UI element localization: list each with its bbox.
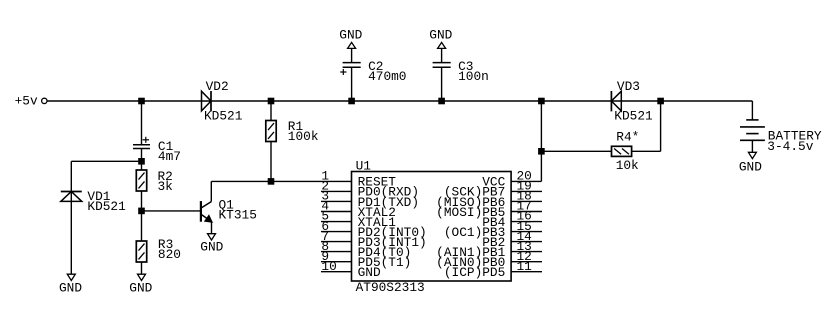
ground (Q1) — [200, 234, 223, 255]
junction R2/R3/Q1-base — [139, 208, 145, 214]
pin 9 number — [321, 249, 329, 264]
wire R3 to ground — [141, 262, 143, 274]
label C3 — [458, 59, 473, 74]
svg-text:KD521: KD521 — [87, 199, 126, 214]
ground (C3, up) — [429, 28, 452, 49]
pin 15 label (OC1)PB3 — [444, 225, 505, 240]
pin 3 number — [321, 189, 329, 204]
svg-text:VD2: VD2 — [206, 79, 229, 94]
pin 7 number — [321, 229, 329, 244]
label C2 — [368, 59, 383, 74]
wire U1 pin 19 stub — [511, 190, 542, 192]
pin 4 label XTAL2 — [358, 205, 396, 220]
value 100k — [288, 129, 319, 144]
svg-text:AT90S2313: AT90S2313 — [356, 280, 425, 295]
capacitor C3 — [433, 63, 451, 68]
wire U1 pin 9 stub — [321, 261, 352, 263]
pin 20 label VCC — [482, 175, 505, 190]
pin 5 number — [321, 209, 329, 224]
pin 10 number — [321, 259, 336, 274]
pin 20 number — [517, 169, 532, 184]
resistor R1 — [266, 121, 276, 142]
svg-text:470m0: 470m0 — [368, 69, 406, 84]
svg-text:GND: GND — [339, 28, 362, 43]
wire R1 to reset line — [270, 142, 272, 182]
wire Q1 collector up to reset line — [210, 181, 212, 201]
svg-text:GND: GND — [429, 28, 452, 43]
op-amp U1 body (IC box) — [352, 172, 512, 282]
wire C3 to rail — [441, 67, 443, 101]
pin 17 label (MOSI)PB5 — [436, 205, 505, 220]
svg-text:GND: GND — [59, 281, 82, 296]
value KD521 (VD2) — [204, 109, 243, 124]
value KD521 (VD3) — [614, 109, 653, 124]
pin 2 label PD0(RXD) — [358, 185, 419, 200]
pin 1 label RESET — [358, 175, 397, 190]
value 820 — [158, 247, 181, 262]
svg-text:820: 820 — [158, 247, 181, 262]
wire U1 pin 6 stub — [321, 231, 352, 233]
label C1 — [158, 139, 174, 154]
pin 15 number — [517, 219, 532, 234]
wire R4 to rail (right, up) — [632, 101, 661, 151]
svg-text:100k: 100k — [288, 129, 319, 144]
pin 17 number — [517, 199, 532, 214]
value 100n — [458, 69, 489, 84]
pin 12 number — [517, 249, 532, 264]
wire +5v rail: VD2 cathode to VD3 cathode — [211, 100, 611, 102]
value 4m7 — [158, 149, 181, 164]
wire U1 pin 17 stub — [511, 210, 542, 212]
label R4* — [616, 130, 639, 145]
capacitor C2 (polarized, + bottom-left) — [340, 63, 361, 75]
wire C2 to rail — [351, 67, 353, 101]
wire node to VD1 (left then down) — [71, 161, 141, 201]
svg-text:KD521: KD521 — [204, 109, 243, 124]
pin 11 number — [517, 259, 533, 274]
value 3k — [158, 179, 174, 194]
wire U1 pin 16 stub — [511, 221, 542, 223]
value KD521 (VD1) — [87, 199, 126, 214]
pin 3 label PD1(TXD) — [358, 195, 419, 210]
junction rail/C2 — [349, 98, 355, 104]
pin 14 label PB2 — [482, 235, 505, 250]
pin 18 number — [517, 189, 532, 204]
wire Q1 emitter to ground — [211, 222, 213, 234]
ground (battery) — [739, 152, 762, 174]
wire U1 pin 20 to +5v rail — [511, 101, 541, 181]
pin 11 label (ICP)PD5 — [444, 265, 505, 280]
wire U1 pin 10 stub — [321, 271, 352, 273]
svg-text:(ICP)PD5: (ICP)PD5 — [444, 265, 505, 280]
resistor R3 — [136, 241, 146, 262]
junction rail/VCC riser — [539, 98, 545, 104]
wire node to R2 — [141, 161, 143, 170]
pin 10 label GND — [358, 265, 381, 280]
pin 6 number — [321, 219, 329, 234]
diode VD3 — [611, 91, 621, 111]
pin 6 label PD2(INT0) — [358, 225, 427, 240]
wire +5v rail: VD3 to battery corner — [611, 100, 752, 102]
pin 12 label (AIN0)PB0 — [436, 255, 505, 270]
ground (C2, up) — [339, 28, 362, 49]
pin 19 number — [517, 179, 532, 194]
wire gnd to C2 — [351, 48, 353, 62]
wire +5v rail: terminal to VD2 — [47, 100, 211, 102]
svg-text:KT315: KT315 — [219, 207, 257, 222]
wire VD1 anode to ground — [70, 201, 72, 273]
junction VCC riser/R4 — [539, 149, 545, 155]
pin 8 number — [321, 239, 329, 254]
pin 13 label (AIN1)PB1 — [436, 245, 505, 260]
node +5v supply label — [15, 93, 38, 108]
svg-text:4m7: 4m7 — [158, 149, 181, 164]
pin 14 number — [517, 229, 533, 244]
svg-text:10: 10 — [321, 259, 336, 274]
ground (R3) — [129, 274, 152, 295]
wire base node to Q1 base — [142, 210, 201, 212]
wire U1 pin 3 stub — [321, 200, 352, 202]
pin 5 label XTAL1 — [358, 215, 397, 230]
ground (VD1) — [59, 274, 82, 295]
svg-text:100n: 100n — [458, 69, 489, 84]
pin 1 number — [321, 169, 329, 184]
svg-text:10k: 10k — [616, 158, 639, 173]
label BATTERY — [768, 129, 822, 144]
wire U1 pin 11 stub — [511, 271, 542, 273]
wire reset line (Q1 collector to U1 pin 1) — [211, 180, 351, 182]
pin 19 label (SCK)PB7 — [444, 185, 505, 200]
label VD3 — [617, 79, 640, 94]
wire U1 pin 4 stub — [321, 210, 352, 212]
junction rail/R1 — [268, 98, 274, 104]
svg-text:GND: GND — [358, 265, 381, 280]
wire U1 pin 7 stub — [321, 241, 352, 243]
value 10k — [616, 158, 639, 173]
transistor Q1 — [201, 201, 212, 222]
pin 18 label (MISO)PB6 — [436, 195, 505, 210]
svg-text:GND: GND — [200, 240, 223, 255]
diode VD2 — [202, 91, 212, 111]
wire U1 pin 2 stub — [321, 190, 352, 192]
svg-text:KD521: KD521 — [614, 109, 653, 124]
wire U1 pin 12 stub — [511, 261, 542, 263]
wire gnd to C3 — [441, 48, 443, 62]
value AT90S2313 — [356, 280, 425, 295]
label VD1 — [87, 189, 110, 204]
wire battery to ground — [751, 140, 753, 152]
label R3 — [158, 237, 173, 252]
junction rail/C3 — [439, 98, 445, 104]
wire rail to C1 top plate — [141, 101, 143, 145]
pin 16 label PB4 — [482, 215, 505, 230]
wire rail to R1 — [270, 101, 272, 121]
resistor R4 — [612, 146, 632, 156]
wire U1 pin 15 stub — [511, 231, 542, 233]
pin 2 number — [321, 179, 329, 194]
svg-text:11: 11 — [517, 259, 533, 274]
value 470m0 — [368, 69, 406, 84]
pin 4 number — [321, 199, 329, 214]
wire rail to battery — [751, 101, 753, 120]
label R1 — [288, 119, 304, 134]
wire U1 pin 5 stub — [321, 221, 352, 223]
svg-text:GND: GND — [129, 281, 152, 296]
svg-text:U1: U1 — [356, 158, 372, 173]
capacitor C1 (polarized, + top-right) — [133, 137, 150, 149]
svg-text:GND: GND — [739, 160, 762, 175]
wire U1 pin 14 stub — [511, 241, 542, 243]
wire U1 pin 8 stub — [321, 251, 352, 253]
value 3-4.5v — [767, 139, 813, 154]
label VD2 — [206, 79, 229, 94]
wire R2 to R3 (through base node) — [141, 191, 143, 241]
label Q1 — [219, 197, 235, 212]
svg-text:VD3: VD3 — [617, 79, 640, 94]
pin 16 number — [517, 209, 532, 224]
svg-text:+5v: +5v — [15, 93, 38, 108]
pin 7 label PD3(INT1) — [358, 235, 427, 250]
value KT315 — [219, 207, 257, 222]
terminal +5v (open circle) — [42, 98, 47, 103]
resistor R2 — [136, 170, 146, 191]
pin 13 number — [517, 239, 532, 254]
label R2 — [158, 169, 173, 184]
wire VCC riser to R4 — [541, 150, 611, 152]
svg-text:R4*: R4* — [616, 130, 639, 145]
battery BAT1 — [740, 120, 765, 140]
svg-text:3-4.5v: 3-4.5v — [767, 139, 813, 154]
pin 9 label PD5(T1) — [358, 255, 412, 270]
junction rail/C1 — [139, 98, 145, 104]
junction R1/reset line — [268, 179, 274, 185]
diode VD1 — [61, 192, 82, 202]
junction C1/VD1/R2 — [139, 159, 145, 165]
wire U1 pin 13 stub — [511, 251, 542, 253]
wire U1 pin 18 stub — [511, 200, 542, 202]
junction rail/R4 riser — [658, 98, 664, 104]
pin 8 label PD4(T0) — [358, 245, 412, 260]
label U1 — [356, 158, 372, 173]
wire C1 bottom plate to node — [141, 149, 143, 162]
svg-text:3k: 3k — [158, 179, 174, 194]
